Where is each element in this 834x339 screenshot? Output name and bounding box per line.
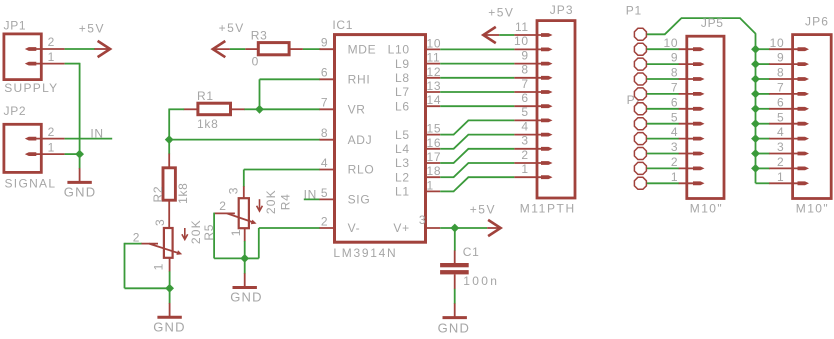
svg-text:1: 1 <box>671 170 678 184</box>
pot R5 adjust arrow <box>184 228 186 239</box>
wire IC L4 horizontal <box>440 148 454 150</box>
svg-text:IC1: IC1 <box>332 18 353 32</box>
wire IC L9 to JP3 pin 9 <box>440 63 514 65</box>
svg-text:V+: V+ <box>393 221 409 235</box>
svg-text:L8: L8 <box>395 71 410 85</box>
svg-text:10: 10 <box>664 36 679 50</box>
wire IC L3 to JP3 pin 3 <box>468 148 515 150</box>
svg-text:3: 3 <box>521 134 528 148</box>
svg-text:JP3: JP3 <box>550 3 574 17</box>
wire R3 to IC pin9 <box>303 48 321 50</box>
svg-text:2: 2 <box>777 155 784 169</box>
connector JP2 body <box>4 124 41 172</box>
svg-text:2: 2 <box>671 155 678 169</box>
wire IC L6 to JP3 pin 6 <box>440 105 514 107</box>
svg-text:+5V: +5V <box>470 202 496 216</box>
svg-text:JP1: JP1 <box>4 19 27 33</box>
pads P1/P2 octagons <box>634 28 646 40</box>
svg-text:5: 5 <box>777 110 784 124</box>
wire JP6 bus to pin 2 <box>756 167 770 169</box>
pot R4 wiper pin <box>214 212 235 214</box>
wire IC L1 diagonal <box>454 177 469 191</box>
wire IC L1 horizontal <box>440 190 454 192</box>
svg-text:GND: GND <box>153 320 186 335</box>
wire pad to JP5 pin 4 <box>647 138 679 140</box>
svg-text:VR: VR <box>348 103 366 117</box>
resistor R3 left pin <box>245 48 258 50</box>
wire IN net at IC pin5 <box>304 198 320 200</box>
connector JP6 pins <box>769 48 801 50</box>
wire JP6 bus to pin 3 <box>756 153 770 155</box>
connector JP1 pin 2 <box>25 47 37 51</box>
svg-text:L4: L4 <box>395 142 410 156</box>
connector JP1 body <box>4 34 41 80</box>
wire IC L2 horizontal <box>440 176 454 178</box>
IC1 left pin stubs <box>320 48 337 50</box>
svg-text:L1: L1 <box>395 185 410 199</box>
svg-text:9: 9 <box>321 36 328 50</box>
svg-text:GND: GND <box>230 290 263 305</box>
wire JP2 pin1 to junction <box>65 153 80 155</box>
wire RHI vertical <box>259 79 261 109</box>
wire R1 right to VR junction <box>244 108 260 110</box>
wire R5 bottom to junction <box>169 271 171 288</box>
svg-text:10: 10 <box>514 34 529 48</box>
svg-text:8: 8 <box>671 66 678 80</box>
svg-text:GND: GND <box>64 185 97 200</box>
wire RHI to IC pin6 <box>260 78 321 80</box>
+5V supply arrow (JP3) <box>483 27 496 43</box>
svg-text:+5V: +5V <box>79 21 105 35</box>
svg-text:1k8: 1k8 <box>176 182 190 203</box>
ground symbol GND4 <box>454 303 456 317</box>
svg-text:L9: L9 <box>395 57 410 71</box>
wire IC L2 to JP3 pin 2 <box>468 162 515 164</box>
svg-text:JP5: JP5 <box>701 16 724 30</box>
junction dots on JP6 bus <box>751 45 760 54</box>
svg-text:GND: GND <box>438 320 471 335</box>
svg-text:3: 3 <box>671 140 678 154</box>
wire IC L4 diagonal <box>454 135 469 149</box>
wire JP6 bus to pin 10 <box>756 48 770 50</box>
wire JP6 bus to pin 5 <box>756 123 770 125</box>
connector JP6 body <box>793 35 832 199</box>
wire pad1 right <box>647 33 666 35</box>
wire +5V to R3 <box>230 48 245 50</box>
svg-text:1k8: 1k8 <box>197 117 218 131</box>
wire JP6 bus to pin 9 <box>756 63 770 65</box>
wire R4 bottom to junction <box>244 241 246 258</box>
wire IC L7 to JP3 pin 7 <box>440 91 514 93</box>
svg-text:3: 3 <box>419 213 426 227</box>
svg-text:4: 4 <box>521 119 528 133</box>
svg-text:20K: 20K <box>264 189 278 214</box>
wire JP1 pin1 right <box>65 63 80 65</box>
svg-text:2: 2 <box>521 148 528 162</box>
IC1 right pin stubs <box>424 48 440 50</box>
resistor R2 top pin <box>168 154 170 168</box>
svg-text:7: 7 <box>321 96 328 110</box>
resistor R3 body <box>258 43 289 55</box>
wire R1 left to corner <box>169 108 184 110</box>
svg-text:0: 0 <box>252 54 259 68</box>
IC1 body <box>335 35 426 243</box>
wire pad to JP5 pin 8 <box>647 78 679 80</box>
wire JP6 bus to pin 8 <box>756 78 770 80</box>
wire V- to R4 junction <box>245 257 259 259</box>
+5V supply arrow (C1) <box>487 227 500 229</box>
svg-text:9: 9 <box>521 48 528 62</box>
resistor R1 right pin <box>231 108 245 110</box>
wire across top to JP6 <box>681 17 741 19</box>
pot R5 body <box>164 228 173 258</box>
wire corner down to ADJ junction <box>168 109 170 140</box>
wire IC L5 diagonal <box>454 120 469 134</box>
svg-text:R2: R2 <box>151 186 165 203</box>
junction at JP2 pin1 <box>75 150 84 159</box>
wire +5V to JP3 pin11 <box>499 34 514 36</box>
wire IC L4 to JP3 pin 4 <box>468 134 515 136</box>
svg-text:+5V: +5V <box>219 21 245 35</box>
svg-text:L2: L2 <box>395 170 410 184</box>
svg-text:11: 11 <box>427 51 441 65</box>
connector JP3 body <box>537 21 575 198</box>
svg-text:8: 8 <box>321 126 328 140</box>
svg-text:RLO: RLO <box>348 163 375 177</box>
svg-text:R3: R3 <box>251 28 268 42</box>
svg-text:L3: L3 <box>395 156 410 170</box>
wire IC L10 to JP3 pin 10 <box>440 48 514 50</box>
junction at ADJ node <box>165 135 174 144</box>
+5V supply arrow (JP1) <box>94 48 110 50</box>
svg-text:6: 6 <box>321 66 328 80</box>
connector JP5 pins <box>679 48 697 50</box>
wire IC L5 horizontal <box>440 134 454 136</box>
connector JP5 body <box>687 36 724 198</box>
svg-text:L7: L7 <box>395 85 410 99</box>
svg-text:1: 1 <box>151 263 165 270</box>
svg-text:1: 1 <box>229 229 243 236</box>
wire V- horizontal <box>259 227 320 229</box>
wire pad to JP5 pin 9 <box>647 63 679 65</box>
svg-text:9: 9 <box>671 51 678 65</box>
connector JP3 pins <box>514 34 545 36</box>
svg-text:6: 6 <box>777 95 784 109</box>
wire RLO to IC pin4 <box>244 169 320 171</box>
svg-text:L10: L10 <box>388 43 410 57</box>
capacitor C1 plates <box>440 263 469 267</box>
svg-text:3: 3 <box>777 140 784 154</box>
svg-text:2: 2 <box>133 230 140 244</box>
pot R4 top pin <box>243 186 245 198</box>
wire pad to JP5 pin 6 <box>647 108 679 110</box>
wire R5 wiper left <box>125 243 142 245</box>
wire diagonal down to JP6 bus <box>740 18 756 33</box>
resistor R3 right pin <box>289 48 303 50</box>
svg-text:1: 1 <box>48 50 55 64</box>
wire IC L5 to JP3 pin 5 <box>468 119 515 121</box>
connector JP2 pin 1 <box>25 152 37 156</box>
svg-text:L5: L5 <box>395 128 410 142</box>
wire V- down <box>258 228 260 258</box>
wire junction down to GND <box>79 154 81 169</box>
svg-text:11: 11 <box>515 20 529 34</box>
svg-text:RHI: RHI <box>348 73 371 87</box>
svg-text:9: 9 <box>777 51 784 65</box>
wire pad1 diagonal up <box>665 18 682 34</box>
svg-text:3: 3 <box>153 219 167 226</box>
svg-text:LM3914N: LM3914N <box>333 246 397 260</box>
capacitor C1 top pin <box>454 251 456 264</box>
svg-text:6: 6 <box>671 95 678 109</box>
svg-text:M10": M10" <box>796 201 829 215</box>
wire pad to JP5 pin 5 <box>647 123 679 125</box>
junction at R4 ground node <box>240 254 249 263</box>
svg-text:17: 17 <box>427 150 442 164</box>
svg-text:2: 2 <box>321 214 328 228</box>
wire V+ junction down to C1 <box>454 228 456 251</box>
svg-text:M10": M10" <box>690 201 723 215</box>
svg-text:12: 12 <box>427 65 442 79</box>
svg-text:M11PTH: M11PTH <box>520 202 576 216</box>
svg-text:IN: IN <box>304 187 317 201</box>
pot R5 bottom pin <box>169 258 171 272</box>
wire JP6 bus to pin 7 <box>756 93 770 95</box>
svg-text:1: 1 <box>427 178 434 192</box>
svg-text:13: 13 <box>427 79 442 93</box>
svg-text:10: 10 <box>770 36 785 50</box>
wire ADJ junction down to R2 <box>168 140 170 155</box>
svg-text:P1: P1 <box>626 3 642 17</box>
pot R4 bottom pin <box>244 228 246 241</box>
wire V+ to junction and +5V <box>440 227 487 229</box>
connector JP2 pin 2 <box>25 137 37 141</box>
wire junction down to GND3 <box>244 258 246 274</box>
svg-text:7: 7 <box>777 81 784 95</box>
svg-text:7: 7 <box>521 77 528 91</box>
svg-text:5: 5 <box>671 110 678 124</box>
connector JP1 pin 1 <box>25 62 37 66</box>
wire IC L3 diagonal <box>454 149 469 163</box>
junction at VR node <box>255 105 264 114</box>
junction at V+ node <box>450 224 459 233</box>
wire JP6 bus corner to pin 1 <box>756 182 770 184</box>
wire pad to JP5 pin 2 <box>647 167 679 169</box>
svg-text:MDE: MDE <box>348 42 377 56</box>
svg-text:+5V: +5V <box>488 6 514 20</box>
svg-text:1: 1 <box>777 170 784 184</box>
wire pad to JP5 pin 7 <box>647 93 679 95</box>
junction at R5 ground node <box>165 284 174 293</box>
svg-text:16: 16 <box>427 136 442 150</box>
svg-text:6: 6 <box>521 91 528 105</box>
wire junction down to GND2 <box>169 288 171 303</box>
wire R5 loop down <box>124 243 126 288</box>
wire C1 to GND4 <box>454 289 456 304</box>
wire IC L2 diagonal <box>454 163 469 177</box>
svg-text:1: 1 <box>521 162 528 176</box>
svg-text:5: 5 <box>521 105 528 119</box>
pot R4 body <box>239 198 249 228</box>
+5V supply arrow (R3) <box>213 41 226 57</box>
wire RLO corner down to R4 <box>243 170 245 187</box>
svg-text:1: 1 <box>48 140 55 154</box>
svg-text:L6: L6 <box>395 99 410 113</box>
svg-text:2: 2 <box>219 199 226 213</box>
wire R5 loop right to junction <box>125 287 170 289</box>
ground symbol GND2 <box>169 303 171 317</box>
svg-text:4: 4 <box>671 125 678 139</box>
svg-text:ADJ: ADJ <box>348 133 373 147</box>
resistor R1 body <box>198 103 231 115</box>
wire JP6 bus to pin 6 <box>756 108 770 110</box>
wire VR junction to IC pin7 <box>260 108 321 110</box>
capacitor C1 bottom pin <box>454 274 456 289</box>
svg-text:20K: 20K <box>189 219 203 244</box>
wire IC L3 horizontal <box>440 162 454 164</box>
svg-text:10: 10 <box>427 36 442 50</box>
svg-text:SIG: SIG <box>348 193 371 207</box>
svg-text:R4: R4 <box>279 194 293 211</box>
wire pad to JP5 pin 3 <box>647 153 679 155</box>
svg-text:15: 15 <box>427 122 442 136</box>
wire IN net at JP2 pin2 <box>65 138 113 140</box>
svg-text:C1: C1 <box>463 245 480 259</box>
svg-text:5: 5 <box>321 186 328 200</box>
wire JP6 bus vertical <box>755 33 757 183</box>
svg-text:SUPPLY: SUPPLY <box>4 81 58 95</box>
wire IC L1 to JP3 pin 1 <box>468 176 515 178</box>
wire pad to JP5 pin 1 <box>647 182 679 184</box>
resistor R2 body <box>163 168 175 200</box>
svg-text:4: 4 <box>321 156 328 170</box>
wire IC L8 to JP3 pin 8 <box>440 77 514 79</box>
svg-text:R1: R1 <box>197 89 214 103</box>
svg-text:IN: IN <box>90 126 103 140</box>
svg-text:7: 7 <box>671 81 678 95</box>
svg-text:2: 2 <box>48 125 55 139</box>
svg-text:8: 8 <box>521 63 528 77</box>
resistor R1 left pin <box>184 108 198 110</box>
svg-text:8: 8 <box>777 66 784 80</box>
svg-text:JP6: JP6 <box>805 15 829 29</box>
wire pad to JP5 pin 10 <box>647 48 679 50</box>
svg-text:SIGNAL: SIGNAL <box>5 176 57 190</box>
svg-text:JP2: JP2 <box>4 104 27 118</box>
wire R4 wiper down <box>213 213 215 259</box>
ground symbol GND3 <box>244 273 246 287</box>
pot R5 wiper pin <box>141 243 158 245</box>
wire JP1 pin2 to +5V <box>65 48 95 50</box>
svg-text:14: 14 <box>427 93 442 107</box>
svg-text:18: 18 <box>427 164 442 178</box>
svg-text:100n: 100n <box>463 274 499 288</box>
wire R4 wiper loop to junction <box>214 257 245 259</box>
ground symbol GND1 <box>79 168 81 182</box>
resistor R2 bottom pin / R5 top pin <box>168 200 170 228</box>
pot R4 adjust arrow <box>259 199 261 210</box>
wire ADJ junction to IC pin8 <box>169 139 320 141</box>
svg-text:V-: V- <box>348 221 361 235</box>
svg-text:2: 2 <box>48 35 55 49</box>
svg-text:3: 3 <box>226 187 240 194</box>
wire JP1 pin1 down to junction <box>79 63 81 154</box>
wire JP6 bus to pin 4 <box>756 138 770 140</box>
svg-text:4: 4 <box>777 125 784 139</box>
